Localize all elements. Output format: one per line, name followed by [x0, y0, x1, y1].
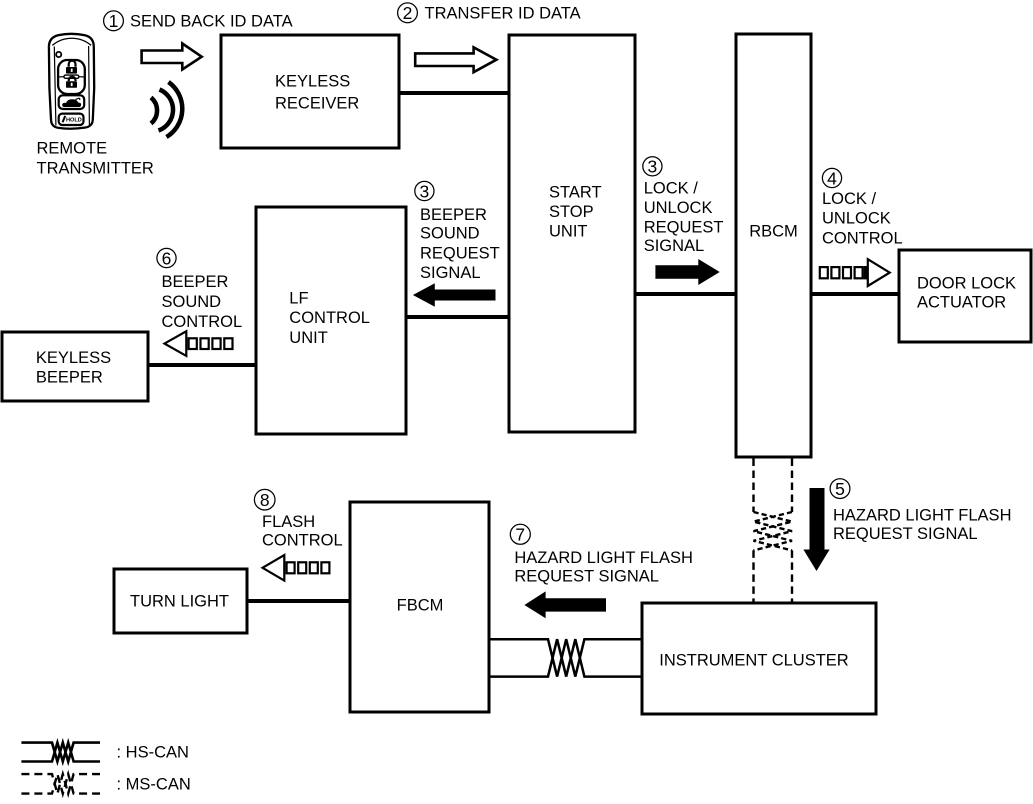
- wire keyless receiver to start stop unit: [399, 91, 509, 95]
- wire start stop unit to lf control unit: [406, 315, 509, 319]
- hs-can bus fbcm to instrument cluster: [489, 639, 642, 676]
- wire start stop unit to rbcm: [635, 292, 736, 296]
- svg-text:START: START: [549, 184, 602, 202]
- label LOCK UNLOCK REQUEST SIGNAL: [644, 180, 724, 255]
- svg-text:DOOR LOCK: DOOR LOCK: [917, 275, 1016, 293]
- svg-text:4: 4: [827, 168, 837, 188]
- svg-text:REMOTE: REMOTE: [37, 139, 108, 157]
- instrument cluster box: [642, 603, 876, 714]
- label FLASH CONTROL: [262, 513, 343, 550]
- svg-text:REQUEST: REQUEST: [420, 244, 500, 262]
- svg-text:1: 1: [109, 11, 119, 31]
- label BEEPER SOUND REQUEST SIGNAL: [420, 206, 500, 282]
- step 3 marker (beeper sound): [415, 181, 434, 201]
- label BEEPER SOUND CONTROL: [162, 273, 243, 331]
- wire lf control unit to keyless beeper: [148, 363, 256, 367]
- arrow hazard light flash request signal (left): [524, 591, 606, 618]
- svg-text:TRANSMITTER: TRANSMITTER: [37, 160, 154, 178]
- step 6 marker: [157, 248, 176, 268]
- svg-text:RECEIVER: RECEIVER: [275, 95, 359, 113]
- legend ms-can symbol: [21, 774, 100, 794]
- svg-text:FLASH: FLASH: [262, 513, 315, 531]
- svg-text:7: 7: [515, 525, 525, 545]
- svg-text:SIGNAL: SIGNAL: [420, 264, 481, 282]
- svg-text:3: 3: [420, 181, 430, 201]
- svg-text:ACTUATOR: ACTUATOR: [917, 294, 1006, 312]
- label LOCK UNLOCK CONTROL: [822, 190, 903, 247]
- step 4 marker: [822, 168, 841, 188]
- svg-text:TURN LIGHT: TURN LIGHT: [130, 593, 229, 611]
- svg-text:2: 2: [403, 3, 413, 23]
- svg-text:CONTROL: CONTROL: [822, 229, 903, 247]
- svg-text:6: 6: [162, 248, 172, 268]
- svg-text:HAZARD LIGHT FLASH: HAZARD LIGHT FLASH: [514, 549, 692, 567]
- striped arrow beeper sound control: [165, 331, 233, 356]
- striped arrow flash control: [263, 555, 330, 581]
- svg-text:UNIT: UNIT: [289, 329, 328, 347]
- wire rbcm to door lock actuator: [811, 292, 899, 296]
- svg-text:3: 3: [648, 157, 658, 177]
- fbcm box: [350, 502, 489, 712]
- svg-text:REQUEST: REQUEST: [644, 218, 724, 236]
- ms-can bus rbcm to instrument cluster: [754, 459, 793, 603]
- arrow hazard light flash request signal (down): [803, 488, 829, 571]
- svg-text:SEND BACK ID DATA: SEND BACK ID DATA: [130, 12, 293, 30]
- label HAZARD LIGHT FLASH REQUEST SIGNAL (7): [514, 549, 692, 586]
- svg-text:REQUEST SIGNAL: REQUEST SIGNAL: [514, 568, 659, 586]
- step 7 marker: [510, 524, 530, 544]
- svg-text:5: 5: [835, 479, 845, 499]
- arrow beeper sound request signal: [413, 283, 496, 306]
- svg-text:CONTROL: CONTROL: [262, 532, 343, 550]
- svg-text:HAZARD LIGHT FLASH: HAZARD LIGHT FLASH: [833, 506, 1011, 524]
- start stop unit box: [509, 35, 635, 432]
- svg-text:BEEPER: BEEPER: [420, 206, 487, 224]
- svg-text:HOLD: HOLD: [66, 118, 82, 124]
- svg-text:UNIT: UNIT: [549, 223, 588, 241]
- svg-text:8: 8: [260, 490, 270, 510]
- wire fbcm to turn light: [247, 599, 350, 603]
- svg-text:UNLOCK: UNLOCK: [822, 210, 891, 228]
- svg-text:RBCM: RBCM: [749, 223, 798, 241]
- svg-text:BEEPER: BEEPER: [36, 369, 103, 387]
- svg-text:: MS-CAN: : MS-CAN: [117, 776, 191, 794]
- lf control unit box: [256, 207, 406, 434]
- svg-text:TRANSFER ID DATA: TRANSFER ID DATA: [425, 4, 581, 22]
- svg-text:CONTROL: CONTROL: [162, 313, 243, 331]
- step 8 marker: [254, 489, 275, 510]
- svg-text:FBCM: FBCM: [397, 597, 444, 615]
- svg-text:UNLOCK: UNLOCK: [644, 199, 713, 217]
- step 3 marker (lock unlock): [643, 157, 662, 177]
- step 1 marker: [104, 11, 124, 31]
- label HAZARD LIGHT FLASH REQUEST SIGNAL (5): [833, 506, 1011, 543]
- radio waves: [151, 82, 182, 137]
- rbcm box: [736, 34, 811, 457]
- svg-text:SOUND: SOUND: [420, 224, 480, 242]
- svg-text:STOP: STOP: [549, 203, 594, 221]
- legend hs-can symbol: [21, 743, 100, 762]
- turn light box: [114, 569, 247, 633]
- arrow send back id data: [142, 44, 202, 70]
- svg-text:SIGNAL: SIGNAL: [644, 237, 705, 255]
- svg-text:SOUND: SOUND: [162, 293, 222, 311]
- remote transmitter icon: [49, 34, 94, 129]
- svg-text:LOCK /: LOCK /: [822, 190, 877, 208]
- striped arrow lock unlock control: [820, 259, 890, 286]
- arrow lock unlock request signal: [655, 259, 719, 285]
- step 5 marker: [830, 479, 850, 499]
- svg-text:: HS-CAN: : HS-CAN: [117, 743, 189, 761]
- svg-text:LOCK /: LOCK /: [644, 180, 699, 198]
- door lock actuator box: [899, 250, 1031, 342]
- keyless receiver box: [221, 35, 399, 148]
- svg-text:INSTRUMENT CLUSTER: INSTRUMENT CLUSTER: [659, 652, 849, 670]
- svg-text:LF: LF: [289, 290, 308, 308]
- arrow transfer id data: [415, 47, 496, 72]
- keyless beeper box: [2, 332, 148, 401]
- svg-text:REQUEST SIGNAL: REQUEST SIGNAL: [833, 525, 978, 543]
- svg-text:CONTROL: CONTROL: [289, 309, 370, 327]
- svg-text:BEEPER: BEEPER: [162, 273, 229, 291]
- svg-text:KEYLESS: KEYLESS: [36, 349, 111, 367]
- svg-text:KEYLESS: KEYLESS: [275, 73, 350, 91]
- step 2 marker: [398, 3, 418, 23]
